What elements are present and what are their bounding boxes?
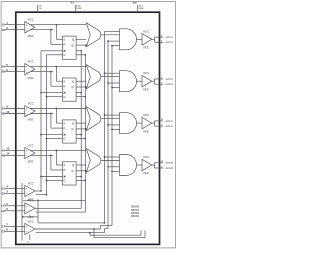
svg-text:VCC: VCC <box>70 0 75 4</box>
svg-text:+: + <box>26 107 28 111</box>
or-gate G4a <box>86 149 101 173</box>
node on 2B rail <box>50 71 52 73</box>
latch U4 <box>63 162 77 185</box>
wire strobe tap lower <box>112 128 120 130</box>
svg-text:OUT 3Y: OUT 3Y <box>166 121 174 123</box>
label above buffer B1 <box>143 29 150 33</box>
svg-text:+: + <box>26 23 28 27</box>
IC outline box <box>16 12 160 244</box>
svg-text:VEE: VEE <box>143 171 149 175</box>
wire input ST line <box>5 230 25 232</box>
svg-text:VCC: VCC <box>143 29 150 33</box>
wire input 4A rail <box>5 149 86 151</box>
wire comparator A7 out2 to riser RA <box>36 229 108 233</box>
svg-text:VEE: VEE <box>28 76 34 80</box>
svg-text:S: S <box>63 163 65 167</box>
wire or-gate output <box>101 76 120 78</box>
wire output pin lower <box>155 41 164 43</box>
svg-text:14: 14 <box>6 152 10 156</box>
svg-text:7: 7 <box>6 223 8 227</box>
svg-text:VEE: VEE <box>143 46 149 50</box>
latch U1 G input wire <box>47 53 67 57</box>
comparator A7 <box>25 223 35 234</box>
svg-text:−: − <box>26 154 28 158</box>
label above buffer B4 <box>143 155 150 159</box>
and-gate G3b <box>120 113 137 134</box>
wire latch strobe elbow 1 <box>76 50 82 52</box>
svg-text:−: − <box>26 230 28 234</box>
wire comparator A6 out2 joins left riser 2 <box>36 211 85 213</box>
wire strobe line above compB <box>23 200 85 202</box>
svg-text:5: 5 <box>6 202 8 206</box>
wire output fork <box>152 163 155 168</box>
wire output fork <box>152 79 155 84</box>
svg-text:V: V <box>27 242 29 244</box>
pin labels 3A/3B <box>2 105 10 116</box>
wire and-gate output <box>137 38 143 40</box>
latch U3 G input wire <box>46 137 67 141</box>
svg-text:+: + <box>26 65 28 69</box>
latch U4 C input wire <box>40 176 65 178</box>
wire input S2 line <box>5 192 25 194</box>
node riser RA <box>107 82 109 84</box>
wire drop to latch S input <box>56 150 62 165</box>
svg-text:86601: 86601 <box>131 214 139 218</box>
wire input S1 line <box>5 187 25 189</box>
pin 2Y labels <box>161 77 174 86</box>
node riser RB upper <box>104 156 106 158</box>
label above comparator A4 <box>28 143 35 147</box>
wire strobe tap lower <box>112 170 120 172</box>
wire bottom link h0 <box>23 215 38 217</box>
label below comparator A3 <box>28 118 34 122</box>
svg-text:5: 5 <box>6 63 8 67</box>
wire bottom nest line 2 <box>93 228 145 237</box>
and-gate G4b <box>120 155 137 176</box>
pin labels LE/LE <box>2 202 9 213</box>
comparator A1 <box>25 22 35 33</box>
wire drop to latch R input <box>51 155 63 170</box>
wire bottom nest line 1 <box>89 231 141 236</box>
wire strobe tap mid <box>108 40 120 42</box>
svg-text:−: − <box>26 70 28 74</box>
label above comparator A2 <box>28 60 35 64</box>
svg-text:+: + <box>26 149 28 153</box>
svg-text:−: − <box>26 192 28 196</box>
wire drop to latch S input <box>56 109 62 124</box>
svg-text:4B: 4B <box>2 154 6 158</box>
wire output pin 2Y upper <box>155 78 164 80</box>
svg-text:VCC: VCC <box>143 71 150 75</box>
or-gate G3a <box>86 107 101 131</box>
node h1 joins riser RC <box>104 222 106 224</box>
svg-text:13: 13 <box>6 147 10 151</box>
svg-text:S2: S2 <box>2 192 6 196</box>
wire and-gate output <box>137 122 143 124</box>
wire output pin lower <box>155 125 164 127</box>
svg-text:2B: 2B <box>2 70 6 74</box>
wire latch Q to gate <box>76 80 86 82</box>
wire input 3B rail <box>5 113 53 115</box>
and-gate G1b <box>120 29 137 50</box>
wire latch strobe elbow 2 <box>76 138 86 140</box>
label above comparator A5 <box>28 181 35 185</box>
wire strobe tap upper <box>105 114 120 116</box>
svg-text:S1: S1 <box>2 186 6 190</box>
pin 1Y labels <box>161 35 174 44</box>
svg-text:1: 1 <box>6 21 8 25</box>
and-gate G2b <box>120 71 137 92</box>
wire drop to latch R input <box>51 114 63 129</box>
wire latch strobe elbow 1 <box>76 176 82 178</box>
wire input LE line <box>5 210 25 212</box>
svg-text:1B: 1B <box>2 28 6 32</box>
pin VCC (top stub 2) <box>70 0 81 12</box>
wire latch Q to gate <box>76 164 86 166</box>
wire strobe tap upper <box>105 156 120 158</box>
wire comparator A5 out2 joins bus <box>36 194 47 196</box>
wire input 2A rail <box>5 66 86 68</box>
wire and-gate output <box>137 164 143 166</box>
svg-text:VEE: VEE <box>28 118 34 122</box>
wire strobe tap mid <box>108 166 120 168</box>
node riser RB lower <box>111 87 113 89</box>
buffer B2 <box>142 76 152 87</box>
latch U2 C input wire <box>40 92 65 94</box>
wire drop to latch S input <box>56 25 62 40</box>
svg-text:10: 10 <box>6 110 10 114</box>
svg-text:S: S <box>63 79 65 83</box>
node riser RA <box>107 40 109 42</box>
wire latch Q to gate <box>76 122 86 124</box>
wire output pin 1Y upper <box>155 36 164 38</box>
node on 4A rail <box>56 150 58 152</box>
wire riser bus RB (and strobe) <box>111 46 113 226</box>
wire riser bus RA (and strobe) <box>107 41 109 229</box>
wire latch Qbar to gate <box>76 44 87 46</box>
wire input 4B rail <box>5 154 53 156</box>
wire comparator A7 bias drop <box>27 235 30 244</box>
svg-text:+: + <box>26 225 28 229</box>
wire or-gate output <box>101 34 120 36</box>
svg-text:12 J: 12 J <box>139 5 144 7</box>
svg-text:−: − <box>26 209 28 213</box>
wire latch strobe elbow 1 <box>76 92 82 94</box>
svg-text:OUT 3Y: OUT 3Y <box>166 126 174 128</box>
svg-text:OUT 4Y: OUT 4Y <box>166 167 174 170</box>
node riser RB lower <box>111 45 113 47</box>
wire and-gate output <box>137 80 143 82</box>
svg-text:VCC: VCC <box>28 18 35 22</box>
wire latch Q to gate <box>76 38 86 40</box>
svg-text:+: + <box>26 187 28 191</box>
label below buffer B4 <box>143 171 149 175</box>
svg-text:S: S <box>63 38 65 42</box>
pin labels 1A/1B <box>2 21 9 32</box>
comparator A6 <box>25 203 35 214</box>
wire output fork <box>152 37 155 42</box>
wire input ST line <box>5 225 25 227</box>
svg-text:VCC: VCC <box>28 219 35 223</box>
label above buffer B2 <box>143 71 150 75</box>
wire bottom link h1 <box>38 222 105 224</box>
wire latch Qbar to gate <box>76 170 87 172</box>
wire input 3A rail <box>5 108 86 110</box>
label below buffer B2 <box>143 87 149 91</box>
comparator A2 <box>25 64 35 75</box>
pin labels 4A/4B <box>2 147 10 158</box>
svg-text:−: − <box>26 112 28 116</box>
svg-text:−: − <box>26 28 28 32</box>
wire strobe tap upper <box>105 30 120 32</box>
svg-text:+: + <box>26 204 28 208</box>
wire output fork <box>152 121 155 126</box>
svg-text:VEE: VEE <box>143 87 149 91</box>
label below buffer B3 <box>143 129 149 133</box>
svg-text:15: 15 <box>161 161 164 163</box>
wire strobe bus A vertical 1 <box>40 51 42 191</box>
svg-text:VCC: VCC <box>143 155 150 159</box>
wire input 1A rail <box>5 24 86 26</box>
svg-text:VCC: VCC <box>28 181 35 185</box>
svg-text:LE: LE <box>2 209 6 213</box>
pin labels 2A/2B <box>2 63 9 74</box>
svg-text:16 W: 16 W <box>76 8 81 10</box>
or-gate G2a <box>86 65 101 89</box>
pin VCC+ (top stub 1) <box>38 5 43 12</box>
wire strobe tap lower <box>112 45 120 47</box>
wire strobe tap mid <box>108 124 120 126</box>
latch U2 G input wire <box>46 95 67 99</box>
latch U1 C input wire <box>41 50 65 52</box>
node riser RB upper <box>104 72 106 74</box>
wire latch Qbar to gate <box>76 128 87 130</box>
buffer B1 <box>142 34 152 45</box>
label above comparator A6 <box>28 199 35 203</box>
wire output pin 3Y upper <box>155 120 164 122</box>
node bottom rail junction <box>22 216 24 218</box>
wire strobe tap upper <box>105 72 120 74</box>
latch U4 G input wire <box>46 179 67 183</box>
svg-text:11: 11 <box>161 119 164 121</box>
svg-text:VEE: VEE <box>133 0 137 4</box>
part number text block <box>131 205 139 219</box>
wire riser bus left-1 (latch strobe) <box>80 51 82 209</box>
svg-text:3B: 3B <box>2 112 6 116</box>
node riser RA <box>107 124 109 126</box>
wire v38 upper <box>37 200 39 217</box>
buffer B4 <box>142 159 152 170</box>
node riser RB lower <box>111 170 113 172</box>
label above comparator A3 <box>28 101 35 105</box>
comparator A3 <box>25 106 35 117</box>
label below comparator A1 <box>28 34 34 38</box>
wire strobe tap lower <box>112 87 120 89</box>
svg-text:1 6: 1 6 <box>39 5 43 7</box>
svg-text:OUT 4Y: OUT 4Y <box>166 162 174 165</box>
svg-text:ST: ST <box>2 224 6 228</box>
wire strobe bus A vertical 2 <box>46 55 48 195</box>
wire strobe tap mid <box>108 82 120 84</box>
node on 2A rail <box>56 66 58 68</box>
wire input 2B rail <box>5 71 53 73</box>
pin 3Y labels <box>161 119 174 128</box>
node on 3A rail <box>56 108 58 110</box>
svg-text:VCC: VCC <box>28 101 35 105</box>
svg-text:4: 4 <box>6 185 8 189</box>
wire comparator A6 out joins left riser 1 <box>35 207 81 209</box>
wire input LE line <box>5 205 25 207</box>
svg-text:S: S <box>63 121 65 125</box>
node on 3B rail <box>50 113 52 115</box>
wire output pin 4Y upper <box>155 162 164 164</box>
comparator A5 <box>25 185 35 196</box>
latch U1 <box>63 36 77 59</box>
label above comparator A7 <box>28 219 35 223</box>
node on 1B rail <box>50 29 52 31</box>
wire riser bus left-2 (latch strobe) <box>84 55 86 212</box>
node riser RB lower <box>111 129 113 131</box>
pin VEE (top stub 3) <box>133 0 144 12</box>
wire latch strobe elbow 2 <box>76 180 86 182</box>
node riser RB upper <box>104 114 106 116</box>
comparator A4 <box>25 147 35 158</box>
wire latch strobe elbow 2 <box>76 96 86 98</box>
svg-text:OUT 1Y: OUT 1Y <box>166 37 174 39</box>
label above buffer B3 <box>143 113 150 117</box>
wire comparator A7 out to riser RB <box>35 225 112 229</box>
or-gate G1a <box>86 23 101 47</box>
label below comparator A5 <box>28 198 34 202</box>
svg-text:VCC: VCC <box>28 60 35 64</box>
wire drop to latch R input <box>51 72 63 87</box>
buffer B3 <box>142 117 152 128</box>
svg-text:9: 9 <box>6 105 8 109</box>
wire output pin lower <box>155 83 164 85</box>
wire comparator A5 out joins bus <box>35 190 42 192</box>
wire or-gate output <box>101 160 120 162</box>
svg-text:1 6: 1 6 <box>39 8 43 10</box>
label below comparator A4 <box>28 160 34 164</box>
svg-text:VCC: VCC <box>143 113 150 117</box>
latch U3 <box>63 120 77 143</box>
svg-text:VEE: VEE <box>28 34 34 38</box>
label above comparator A1 <box>28 18 35 22</box>
wire input 1B rail <box>5 29 53 31</box>
wire riser bus RC (and strobe) <box>104 31 106 223</box>
wire drop to latch R input <box>51 30 63 45</box>
svg-text:LE: LE <box>2 204 6 208</box>
svg-text:OUT 2Y: OUT 2Y <box>166 79 174 81</box>
label below buffer B1 <box>143 46 149 50</box>
wire bottom link v38 <box>37 217 39 223</box>
wire latch strobe elbow 2 <box>76 54 86 56</box>
svg-text:14 J: 14 J <box>76 4 81 7</box>
wire drop to latch S input <box>56 67 62 82</box>
svg-text:VEE: VEE <box>28 160 34 164</box>
svg-text:OUT 2Y: OUT 2Y <box>166 84 174 86</box>
wire latch strobe elbow 1 <box>76 134 82 136</box>
node riser RA <box>107 166 109 168</box>
svg-text:OUT 1Y: OUT 1Y <box>166 42 174 44</box>
pin labels S1/S2 <box>2 185 9 196</box>
wire output pin lower <box>155 167 164 169</box>
svg-text:VEE: VEE <box>143 129 149 133</box>
node on 4B rail <box>50 155 52 157</box>
label below comparator A6 <box>28 215 34 219</box>
pin 4Y labels <box>161 161 174 170</box>
latch U3 C input wire <box>40 134 65 136</box>
node on 1A rail <box>56 24 58 26</box>
wire bottom rail x22 <box>21 183 23 241</box>
latch U2 <box>63 78 77 101</box>
svg-text:VCC: VCC <box>28 143 35 147</box>
svg-text:13 W: 13 W <box>139 8 144 10</box>
wire latch Qbar to gate <box>76 86 87 88</box>
label below comparator A2 <box>28 76 34 80</box>
svg-text:ST: ST <box>2 230 6 234</box>
figure border frame <box>1 2 176 248</box>
wire or-gate output <box>101 118 120 120</box>
pin labels ST/ST <box>2 223 9 234</box>
